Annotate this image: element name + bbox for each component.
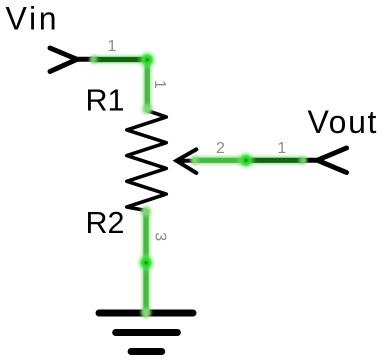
- wire Vout node to Vout connector (dark core), pin 1: [246, 158, 304, 163]
- svg-text:R1: R1: [86, 84, 125, 118]
- end blob at R1 top pin: [142, 104, 152, 114]
- wire Vin to node (dark core), pin 1: [93, 57, 147, 62]
- end blob at ground pin: [141, 308, 151, 318]
- net connector Vout arrow: [304, 148, 347, 173]
- svg-text:1: 1: [151, 80, 168, 89]
- end blob at wiper pin: [191, 156, 199, 164]
- junction dot at Vin corner node: [136, 49, 158, 71]
- potentiometer wiper arrow: [177, 149, 197, 173]
- wire node down to R1 pin1 (halo): [144, 60, 152, 110]
- junction dot on Vout net: [235, 149, 257, 171]
- net connector Vin arrow: [50, 48, 92, 72]
- end blob at R2 bottom pin: [141, 207, 151, 217]
- wire wiper to Vout node (bright core), pin 2: [194, 158, 247, 163]
- wire Vin to node (halo): [95, 56, 147, 64]
- wire halos (net highlight glow): [95, 60, 302, 314]
- junction dot on ground wire: [135, 252, 157, 274]
- end blob at Vout stub: [299, 156, 307, 164]
- wire wiper to Vout node (halo): [195, 157, 302, 165]
- svg-text:R2: R2: [86, 206, 125, 240]
- svg-text:3: 3: [151, 232, 168, 241]
- wire R2 pin 3 to ground (bright core): [143, 211, 148, 317]
- svg-text:Vin: Vin: [6, 0, 60, 36]
- wire R2 pin3 to ground (halo): [142, 212, 150, 314]
- svg-text:Vout: Vout: [308, 104, 378, 140]
- svg-text:1: 1: [108, 38, 117, 55]
- svg-text:1: 1: [277, 140, 286, 157]
- wire end connection blobs: [90, 56, 308, 318]
- wire node down to R1 pin 1 (bright core): [145, 60, 150, 111]
- potentiometer R1/R2 resistor zigzag body: [127, 111, 167, 211]
- ground symbol: [99, 313, 193, 352]
- end blob at Vin stub: [90, 56, 98, 64]
- svg-text:2: 2: [216, 140, 225, 157]
